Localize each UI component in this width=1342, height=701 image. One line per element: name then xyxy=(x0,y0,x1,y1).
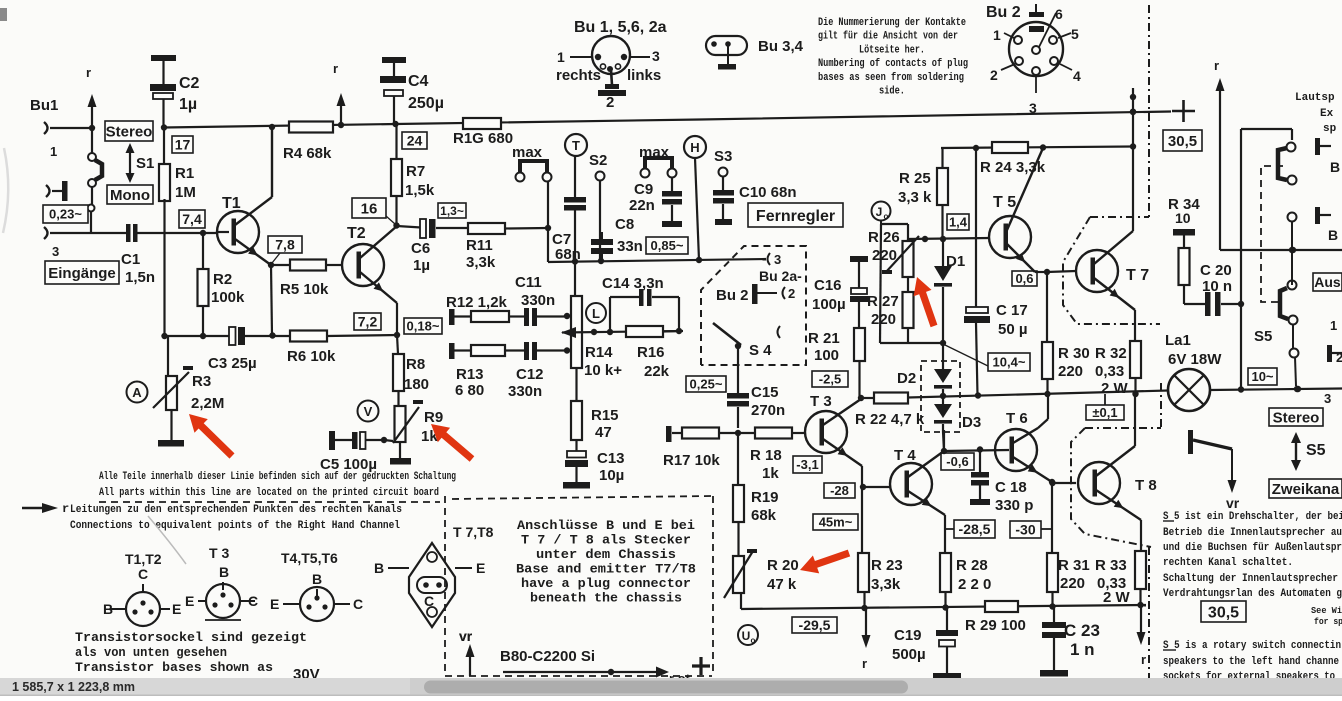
svg-text:330 p: 330 p xyxy=(995,497,1033,514)
svg-text:R9: R9 xyxy=(424,409,443,426)
svg-text:100: 100 xyxy=(814,347,839,364)
svg-text:C6: C6 xyxy=(411,240,430,257)
svg-text:R13: R13 xyxy=(456,366,484,383)
svg-text:Ex: Ex xyxy=(1320,108,1334,120)
svg-text:1,4: 1,4 xyxy=(949,215,968,230)
svg-text:R19: R19 xyxy=(751,489,779,506)
svg-text:17: 17 xyxy=(175,137,191,153)
svg-text:1 n: 1 n xyxy=(1070,640,1095,659)
svg-text:330n: 330n xyxy=(521,292,555,309)
svg-text:C15: C15 xyxy=(751,384,779,401)
svg-text:T 7,T8: T 7,T8 xyxy=(453,524,494,540)
svg-text:S 5 is a rotary switch connect: S 5 is a rotary switch connectin xyxy=(1163,640,1341,652)
svg-text:R15: R15 xyxy=(591,407,619,424)
svg-text:2: 2 xyxy=(606,94,614,111)
svg-text:Eingänge: Eingänge xyxy=(48,265,116,282)
svg-text:6V 18W: 6V 18W xyxy=(1168,351,1222,368)
svg-text:U: U xyxy=(742,629,751,643)
svg-text:6: 6 xyxy=(1055,6,1063,22)
svg-text:2: 2 xyxy=(990,67,998,83)
svg-text:2 W: 2 W xyxy=(1103,589,1131,606)
svg-text:A: A xyxy=(132,385,142,400)
svg-text:1: 1 xyxy=(557,49,565,65)
svg-text:10 k+: 10 k+ xyxy=(584,362,622,379)
svg-text:3,3k: 3,3k xyxy=(871,576,901,593)
svg-text:D3: D3 xyxy=(962,414,981,431)
svg-text:R7: R7 xyxy=(406,163,425,180)
svg-text:R3: R3 xyxy=(192,373,211,390)
svg-text:3,3k: 3,3k xyxy=(466,254,496,271)
svg-text:R16: R16 xyxy=(637,344,665,361)
svg-text:22k: 22k xyxy=(644,363,670,380)
svg-text:7,4: 7,4 xyxy=(182,211,202,227)
svg-text:C2: C2 xyxy=(179,75,200,92)
svg-text:4: 4 xyxy=(1073,68,1081,84)
svg-text:R 22 4,7 k: R 22 4,7 k xyxy=(855,411,925,428)
svg-text:vr: vr xyxy=(459,628,473,644)
svg-text:Stereo: Stereo xyxy=(1273,409,1320,426)
svg-text:R 20: R 20 xyxy=(767,557,799,574)
svg-text:Bu 2: Bu 2 xyxy=(986,4,1021,21)
svg-text:und die Buchsen für Außenlauts: und die Buchsen für Außenlautspr xyxy=(1163,542,1342,554)
svg-text:Zweikana: Zweikana xyxy=(1272,481,1340,498)
svg-text:1: 1 xyxy=(1330,318,1337,333)
svg-text:47 k: 47 k xyxy=(767,576,797,593)
svg-text:All parts within this line are: All parts within this line are located o… xyxy=(99,487,439,499)
svg-text:L: L xyxy=(592,306,600,321)
svg-text:C1: C1 xyxy=(121,251,140,268)
svg-text:have a plug connector: have a plug connector xyxy=(521,576,691,591)
svg-text:0,18~: 0,18~ xyxy=(407,319,440,334)
svg-text:r: r xyxy=(1214,58,1219,73)
svg-text:Lautsp: Lautsp xyxy=(1295,92,1335,104)
svg-text:7,2: 7,2 xyxy=(358,314,378,330)
svg-text:B: B xyxy=(103,601,113,617)
svg-text:7,8: 7,8 xyxy=(275,237,295,253)
svg-text:C16: C16 xyxy=(814,277,842,294)
svg-text:1,3~: 1,3~ xyxy=(440,204,464,218)
svg-text:2: 2 xyxy=(1336,350,1342,365)
svg-text:Numbering of contacts of plug: Numbering of contacts of plug xyxy=(818,58,968,70)
svg-text:-29,5: -29,5 xyxy=(799,617,831,633)
svg-text:C12: C12 xyxy=(516,366,544,383)
svg-text:0,85~: 0,85~ xyxy=(651,238,684,253)
svg-text:16: 16 xyxy=(361,200,378,217)
svg-text:sp: sp xyxy=(1323,123,1337,135)
svg-text:1,5k: 1,5k xyxy=(405,182,435,199)
svg-text:5: 5 xyxy=(1071,26,1079,42)
svg-text:B: B xyxy=(1328,227,1338,243)
svg-text:See Wi: See Wi xyxy=(1311,605,1342,616)
svg-text:C: C xyxy=(138,566,148,582)
svg-text:B: B xyxy=(374,560,384,576)
svg-text:220: 220 xyxy=(1058,363,1083,380)
svg-text:T 7: T 7 xyxy=(1126,267,1149,284)
svg-text:rechten Kanal schaltet.: rechten Kanal schaltet. xyxy=(1163,557,1293,569)
svg-text:E: E xyxy=(172,601,181,617)
svg-text:R1G 680: R1G 680 xyxy=(453,130,513,147)
svg-text:Bu 3,4: Bu 3,4 xyxy=(758,38,804,55)
svg-text:max: max xyxy=(639,144,670,161)
svg-text:10,4~: 10,4~ xyxy=(993,355,1026,370)
svg-text:T 8: T 8 xyxy=(1135,477,1157,494)
svg-text:Bu 1, 5,6, 2a: Bu 1, 5,6, 2a xyxy=(574,19,667,36)
svg-text:C19: C19 xyxy=(894,627,922,644)
svg-text:T 3: T 3 xyxy=(810,393,832,410)
svg-text:R11: R11 xyxy=(466,237,493,254)
svg-text:vr: vr xyxy=(1226,495,1240,511)
svg-text:B: B xyxy=(312,571,322,587)
svg-text:speakers to the left hand chan: speakers to the left hand channe xyxy=(1163,656,1339,668)
svg-text:rechts: rechts xyxy=(556,67,601,84)
svg-text:3,3 k: 3,3 k xyxy=(898,189,932,206)
svg-text:C10 68n: C10 68n xyxy=(739,184,797,201)
svg-text:68n: 68n xyxy=(555,246,581,263)
svg-text:unter dem Chassis: unter dem Chassis xyxy=(536,547,676,562)
svg-text:1µ: 1µ xyxy=(413,257,430,274)
svg-text:R17 10k: R17 10k xyxy=(663,452,720,469)
svg-text:47: 47 xyxy=(595,424,612,441)
svg-text:r: r xyxy=(62,502,69,516)
svg-text:0,23~: 0,23~ xyxy=(49,207,82,222)
svg-text:C3 25µ: C3 25µ xyxy=(208,355,257,372)
svg-text:R8: R8 xyxy=(406,356,425,373)
svg-text:V: V xyxy=(364,404,373,419)
svg-text:30,5: 30,5 xyxy=(1168,133,1197,150)
svg-text:C 17: C 17 xyxy=(996,302,1028,319)
svg-text:T4,T5,T6: T4,T5,T6 xyxy=(281,550,338,566)
svg-text:C4: C4 xyxy=(408,73,429,90)
svg-text:B80-C2200 Si: B80-C2200 Si xyxy=(500,648,595,665)
svg-text:100k: 100k xyxy=(211,289,245,306)
svg-text:S 4: S 4 xyxy=(749,342,772,359)
svg-text:C14 3,3n: C14 3,3n xyxy=(602,275,664,292)
svg-text:220: 220 xyxy=(1060,575,1085,592)
svg-text:C9: C9 xyxy=(634,181,653,198)
svg-text:links: links xyxy=(627,67,661,84)
svg-text:S5: S5 xyxy=(1306,442,1326,459)
svg-text:3: 3 xyxy=(774,252,781,267)
svg-text:R 27: R 27 xyxy=(867,293,899,310)
svg-text:Die Nummerierung der Kontakte: Die Nummerierung der Kontakte xyxy=(818,17,966,29)
svg-text:C8: C8 xyxy=(615,216,634,233)
svg-text:r: r xyxy=(333,61,338,76)
svg-text:10µ: 10µ xyxy=(599,467,624,484)
svg-text:R 31: R 31 xyxy=(1058,557,1090,574)
svg-text:-28: -28 xyxy=(830,483,849,498)
svg-text:S5: S5 xyxy=(1254,328,1272,345)
svg-text:33n: 33n xyxy=(617,238,643,255)
svg-text:50 µ: 50 µ xyxy=(998,321,1028,338)
svg-text:Transistor bases shown as: Transistor bases shown as xyxy=(75,660,273,675)
svg-text:-3,1: -3,1 xyxy=(796,457,818,472)
svg-text:10~: 10~ xyxy=(1251,369,1273,384)
svg-text:R5 10k: R5 10k xyxy=(280,281,329,298)
svg-text:Fernregler: Fernregler xyxy=(756,208,835,225)
svg-text:o: o xyxy=(884,212,889,221)
svg-text:T 4: T 4 xyxy=(894,447,916,464)
svg-text:E: E xyxy=(476,560,485,576)
svg-text:2 2 0: 2 2 0 xyxy=(958,576,991,593)
svg-text:S 5 ist ein Drehschalter, der: S 5 ist ein Drehschalter, der bei xyxy=(1163,511,1342,523)
svg-text:S2: S2 xyxy=(589,152,607,169)
svg-text:Bu 2: Bu 2 xyxy=(716,287,749,304)
svg-text:45m~: 45m~ xyxy=(819,515,853,530)
svg-text:Mono: Mono xyxy=(110,187,150,204)
svg-text:C11: C11 xyxy=(515,274,542,291)
svg-text:1: 1 xyxy=(50,144,57,159)
svg-text:R 26: R 26 xyxy=(868,229,900,246)
svg-text:Schaltung der Innenlautspreche: Schaltung der Innenlautsprecher xyxy=(1163,573,1338,585)
svg-text:R 18: R 18 xyxy=(750,447,782,464)
svg-text:La1: La1 xyxy=(1165,332,1191,349)
svg-text:Bu1: Bu1 xyxy=(30,97,58,114)
svg-text:D2: D2 xyxy=(897,370,916,387)
svg-text:250µ: 250µ xyxy=(408,95,444,112)
svg-text:-28,5: -28,5 xyxy=(959,521,991,537)
svg-text:Stereo: Stereo xyxy=(106,123,153,140)
svg-text:R 28: R 28 xyxy=(956,557,988,574)
svg-text:100µ: 100µ xyxy=(812,296,846,313)
svg-text:0,25~: 0,25~ xyxy=(690,377,723,392)
svg-text:r: r xyxy=(86,65,91,80)
svg-text:Bu 2a-: Bu 2a- xyxy=(759,268,802,284)
svg-text:R6 10k: R6 10k xyxy=(287,348,336,365)
svg-text:Transistorsockel sind gezeigt: Transistorsockel sind gezeigt xyxy=(75,630,307,645)
svg-text:R 32: R 32 xyxy=(1095,345,1127,362)
svg-text:T 7 / T 8 als Stecker: T 7 / T 8 als Stecker xyxy=(521,533,691,548)
svg-text:R 21: R 21 xyxy=(808,330,840,347)
svg-text:1µ: 1µ xyxy=(179,96,197,113)
svg-text:C 20: C 20 xyxy=(1200,262,1232,279)
svg-text:22n: 22n xyxy=(629,197,655,214)
svg-text:68k: 68k xyxy=(751,507,777,524)
svg-text:S3: S3 xyxy=(714,148,732,165)
svg-text:C: C xyxy=(353,596,363,612)
svg-text:1,5n: 1,5n xyxy=(125,269,155,286)
svg-text:T: T xyxy=(572,138,580,153)
svg-text:1: 1 xyxy=(993,27,1001,43)
svg-text:500µ: 500µ xyxy=(892,646,926,663)
svg-text:J: J xyxy=(876,205,883,219)
svg-text:o: o xyxy=(751,636,756,645)
svg-text:T1,T2: T1,T2 xyxy=(125,551,162,567)
svg-text:R 29 100: R 29 100 xyxy=(965,617,1026,634)
svg-text:E: E xyxy=(270,596,279,612)
svg-text:2: 2 xyxy=(788,286,795,301)
svg-text:R14: R14 xyxy=(585,344,613,361)
svg-text:3: 3 xyxy=(652,48,660,64)
svg-text:180: 180 xyxy=(404,376,429,393)
svg-text:Base and emitter T7/T8: Base and emitter T7/T8 xyxy=(516,562,696,577)
svg-text:R12 1,2k: R12 1,2k xyxy=(446,294,508,311)
svg-text:r: r xyxy=(1141,652,1146,667)
svg-text:r: r xyxy=(862,656,867,671)
svg-text:C 23: C 23 xyxy=(1064,621,1100,640)
svg-text:for sp: for sp xyxy=(1314,616,1342,627)
svg-text:side.: side. xyxy=(879,86,905,98)
svg-text:Connections to equivalent poin: Connections to equivalent points of the … xyxy=(70,520,400,532)
svg-text:±0,1: ±0,1 xyxy=(1092,405,1117,420)
svg-text:3: 3 xyxy=(52,244,59,259)
svg-text:3: 3 xyxy=(1324,391,1331,406)
svg-text:B: B xyxy=(1330,159,1340,175)
svg-text:T 3: T 3 xyxy=(209,545,229,561)
svg-text:R 23: R 23 xyxy=(871,557,903,574)
svg-text:-0,6: -0,6 xyxy=(946,454,968,469)
svg-text:B: B xyxy=(219,564,229,580)
svg-text:max: max xyxy=(512,144,543,161)
svg-text:T2: T2 xyxy=(347,225,366,242)
svg-text:als von unten gesehen: als von unten gesehen xyxy=(75,645,227,660)
svg-text:H: H xyxy=(690,140,699,155)
svg-text:T 5: T 5 xyxy=(993,194,1016,211)
svg-text:R4 68k: R4 68k xyxy=(283,145,332,162)
svg-text:Betrieb die Innenlautsprecher: Betrieb die Innenlautsprecher au xyxy=(1163,527,1342,539)
svg-text:Leitungen zu den entsprechende: Leitungen zu den entsprechenden Punkten … xyxy=(70,504,402,516)
svg-text:T1: T1 xyxy=(222,195,241,212)
svg-text:C: C xyxy=(424,593,434,609)
svg-text:R 30: R 30 xyxy=(1058,345,1090,362)
svg-text:R2: R2 xyxy=(213,271,232,288)
svg-text:S1: S1 xyxy=(136,155,154,172)
svg-text:R 25: R 25 xyxy=(899,170,931,187)
svg-text:beneath the chassis: beneath the chassis xyxy=(530,591,682,606)
svg-text:0,6: 0,6 xyxy=(1015,271,1033,286)
svg-text:1M: 1M xyxy=(175,184,196,201)
svg-text:Lötseite her.: Lötseite her. xyxy=(859,44,925,56)
svg-text:-2,5: -2,5 xyxy=(819,372,841,387)
svg-text:C 18: C 18 xyxy=(995,479,1027,496)
svg-text:270n: 270n xyxy=(751,402,785,419)
svg-text:E: E xyxy=(185,593,194,609)
svg-text:1 585,7 x 1 223,8 mm: 1 585,7 x 1 223,8 mm xyxy=(12,680,135,694)
svg-text:2,2M: 2,2M xyxy=(191,395,224,412)
svg-text:T 6: T 6 xyxy=(1006,410,1028,427)
svg-text:3: 3 xyxy=(1029,100,1037,116)
svg-text:Verdrahtungsrlan des Automaten: Verdrahtungsrlan des Automaten g xyxy=(1163,588,1342,600)
svg-text:30,5: 30,5 xyxy=(1208,604,1239,621)
svg-text:gilt für die Ansicht von der: gilt für die Ansicht von der xyxy=(818,31,958,43)
svg-text:Alle Teile innerhalb dieser Li: Alle Teile innerhalb dieser Linie befind… xyxy=(99,471,456,483)
svg-text:0,33: 0,33 xyxy=(1095,363,1124,380)
svg-text:bases as seen from soldering: bases as seen from soldering xyxy=(818,72,964,84)
svg-text:6 80: 6 80 xyxy=(455,382,484,399)
svg-text:330n: 330n xyxy=(508,383,542,400)
svg-text:220: 220 xyxy=(872,247,897,264)
svg-text:-30: -30 xyxy=(1015,522,1035,538)
svg-text:C13: C13 xyxy=(597,450,625,467)
svg-text:Anschlüsse B und E bei: Anschlüsse B und E bei xyxy=(517,518,695,533)
svg-text:1k: 1k xyxy=(762,465,779,482)
svg-text:24: 24 xyxy=(407,133,423,149)
svg-text:R1: R1 xyxy=(175,165,194,182)
svg-text:Aus: Aus xyxy=(1314,274,1341,290)
svg-text:C: C xyxy=(248,593,258,609)
svg-text:10: 10 xyxy=(1175,210,1191,226)
svg-text:R 33: R 33 xyxy=(1095,557,1127,574)
svg-text:220: 220 xyxy=(871,311,896,328)
